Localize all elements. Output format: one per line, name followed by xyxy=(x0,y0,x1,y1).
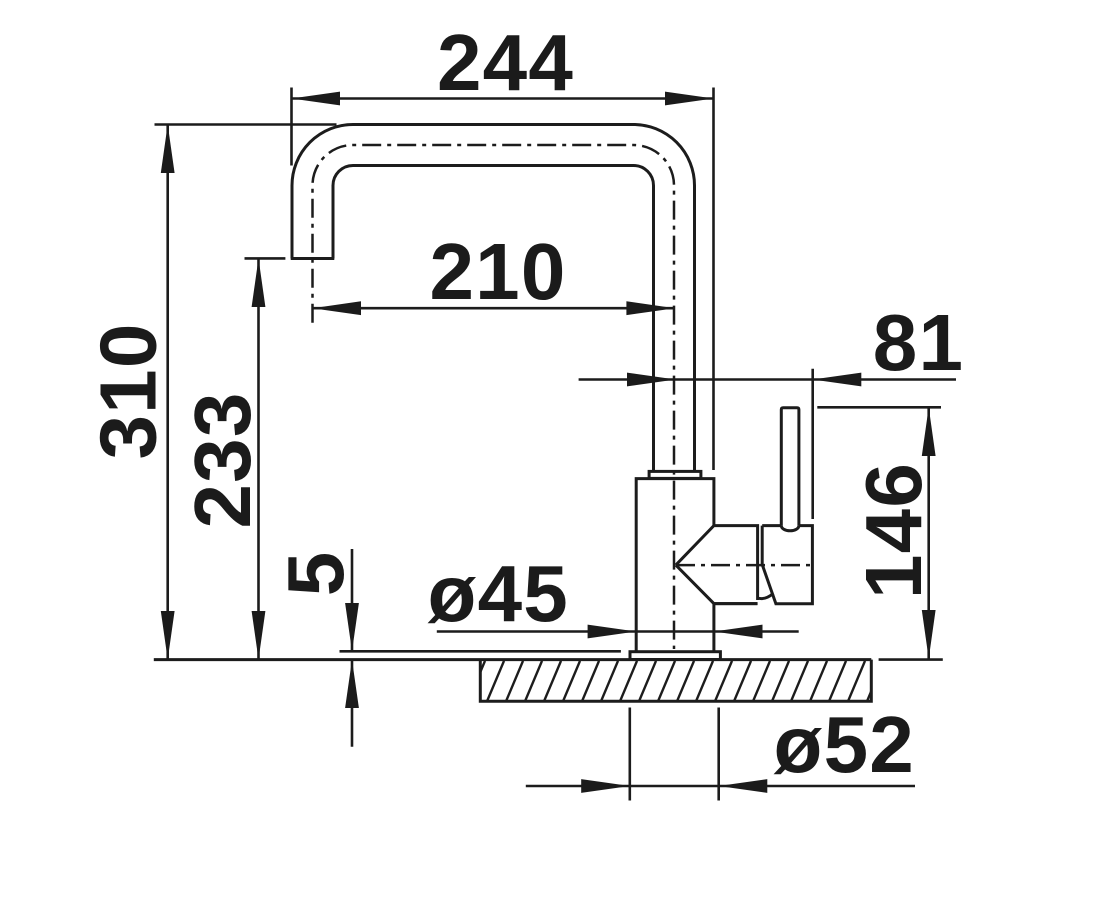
faucet spout tube outline xyxy=(292,125,695,472)
dim 244 extension line left xyxy=(290,88,293,166)
dim 146 arrow bottom xyxy=(922,610,936,659)
svg-text:244: 244 xyxy=(437,18,574,107)
svg-text:210: 210 xyxy=(429,227,566,316)
dim 5 arrow lower xyxy=(345,660,359,708)
dim 81 arrow right xyxy=(813,373,862,387)
countertop baseline xyxy=(154,658,872,661)
dim o45 arrow right xyxy=(714,625,763,639)
svg-text:ø52: ø52 xyxy=(774,700,915,789)
lever bottom cap arc xyxy=(781,526,799,531)
dim 5 line lower xyxy=(351,660,354,747)
dim o52 arrow right xyxy=(719,779,768,793)
dim 5 line upper xyxy=(351,549,354,651)
dim 244 arrow left xyxy=(292,92,341,106)
spout centerline xyxy=(313,145,675,649)
base flange xyxy=(630,652,720,660)
mixer wedge housing xyxy=(676,526,758,604)
dim o52 arrow left xyxy=(581,779,630,793)
spout outlet end cap xyxy=(291,257,335,260)
dim 210 arrow left xyxy=(312,301,361,315)
dim 310 line xyxy=(166,125,169,660)
dim 146 extension line top xyxy=(817,406,941,409)
dim 310 extension line top xyxy=(155,123,337,126)
dim 233 arrow bottom xyxy=(252,611,266,660)
dim 5 arrow upper xyxy=(345,603,359,651)
dim o45 line xyxy=(437,630,799,633)
handle lever xyxy=(781,408,799,526)
svg-text:5: 5 xyxy=(271,552,360,597)
handle base xyxy=(762,526,812,604)
dim 146 line xyxy=(927,407,930,659)
dim 81 arrow left xyxy=(627,373,676,387)
dim 5 reference line xyxy=(340,650,621,653)
dim 244 arrow right xyxy=(665,92,714,106)
dim 244 extension line right xyxy=(712,88,715,471)
dim 233 line xyxy=(257,258,260,659)
dim 310 arrow bottom xyxy=(161,611,175,660)
dim o52 extension line right xyxy=(717,708,720,801)
dim 81 line xyxy=(579,378,956,381)
countertop slab xyxy=(480,660,871,702)
dim 233 extension line top xyxy=(245,257,286,260)
svg-text:233: 233 xyxy=(178,391,267,528)
dim 244 line xyxy=(292,97,714,100)
dim 81 extension line right xyxy=(811,369,814,519)
dim 146 arrow top xyxy=(922,407,936,456)
handle centerline xyxy=(676,564,814,567)
dim o45 arrow left xyxy=(588,625,637,639)
dim o52 line xyxy=(526,785,915,788)
baseline right segment (146 lower extension) xyxy=(879,658,943,661)
svg-text:146: 146 xyxy=(849,462,938,599)
dim 233 arrow top xyxy=(252,258,266,307)
dim o52 extension line left xyxy=(628,708,631,801)
dim 210 line xyxy=(312,307,675,310)
collar nut xyxy=(649,471,701,478)
svg-text:310: 310 xyxy=(84,322,173,459)
faucet body xyxy=(636,479,714,652)
dim 310 arrow top xyxy=(161,125,175,174)
dim 210 arrow right xyxy=(626,301,675,315)
svg-text:ø45: ø45 xyxy=(428,549,569,638)
slab hatching xyxy=(449,661,884,701)
handle swing arc xyxy=(758,593,774,598)
svg-text:81: 81 xyxy=(873,298,964,387)
